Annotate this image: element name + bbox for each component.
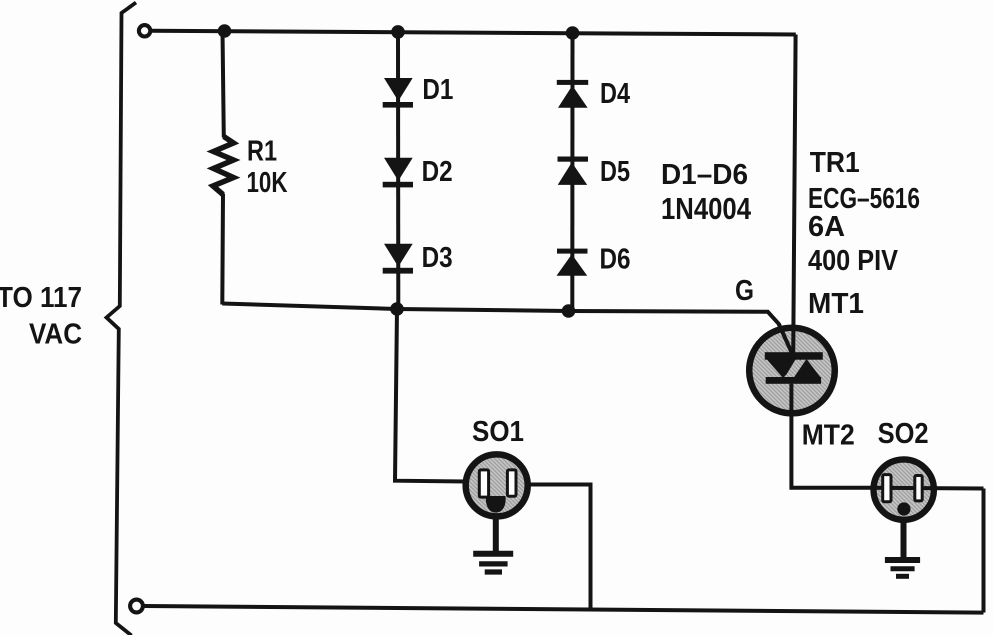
triac TR1 body [749,328,835,414]
wire gate bus [222,304,793,357]
diode D5 [558,157,589,185]
svg-text:D5: D5 [600,156,630,188]
terminal bottom [130,600,143,613]
diode D6 [557,249,588,276]
wire bottom bus [145,606,984,613]
wire SO2 right [982,489,986,613]
svg-text:D4: D4 [600,78,630,110]
label R1 10K [247,136,288,199]
wire SO1 right [528,485,591,609]
triac TR1 symbol [765,352,823,384]
diode D4 [557,80,588,108]
label TO 117 VAC [0,282,82,351]
svg-text:SO1: SO1 [472,416,524,448]
wire top bus [151,31,796,35]
svg-text:G: G [735,275,754,307]
svg-text:1N4004: 1N4004 [661,191,752,226]
svg-text:D1–D6: D1–D6 [661,159,748,191]
diode D2 [383,158,413,188]
svg-text:D1: D1 [422,74,453,106]
junction top-R1 [218,24,232,38]
wire diode chain right [570,33,574,311]
socket SO2 [871,459,984,519]
svg-text:TR1: TR1 [810,147,860,179]
svg-text:VAC: VAC [29,319,82,351]
svg-text:D3: D3 [422,242,453,274]
svg-text:TO 117: TO 117 [0,282,82,314]
wire MT2 lead [791,384,871,488]
junction top-D1 [391,25,405,39]
svg-text:400 PIV: 400 PIV [808,245,899,277]
terminal top [139,25,150,36]
junction top-D4 [566,26,580,40]
junction gate-D6 [562,304,576,318]
wire MT1 lead [793,35,795,357]
ground SO1 [473,516,513,572]
svg-text:MT1: MT1 [808,288,864,320]
wire diode chain left [396,32,400,309]
wire SO1 left [395,309,466,482]
svg-text:SO2: SO2 [878,418,929,450]
wire R1 lower lead [220,194,225,305]
svg-text:10K: 10K [247,167,288,199]
socket SO1 [466,454,528,516]
svg-text:6A: 6A [808,211,845,243]
svg-text:D6: D6 [600,244,631,276]
AC source bracket [107,3,137,635]
label D1-D6 1N4004 [661,159,752,226]
wire gate inner lead [779,324,794,356]
svg-text:D2: D2 [422,156,453,188]
ground SO2 [885,520,920,576]
svg-text:R1: R1 [247,136,277,168]
diode D1 [383,78,413,108]
junction gate-D3 [390,302,404,316]
label TR1 ECG-5616 6A 400 PIV MT1 [808,147,920,320]
diode D3 [383,244,413,274]
resistor R1 [213,137,234,195]
wire R1 upper lead [223,31,224,138]
svg-text:MT2: MT2 [802,419,855,451]
